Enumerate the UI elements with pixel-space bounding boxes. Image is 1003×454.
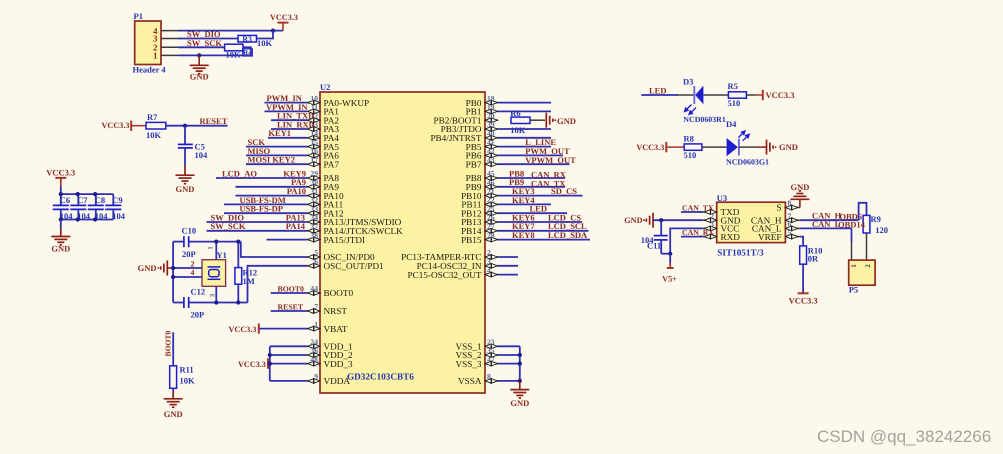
svg-text:SIT1051T/3: SIT1051T/3: [717, 248, 764, 258]
U2 pin 33 PA12: [307, 204, 344, 218]
U2 pin 9 VDDA: [307, 372, 350, 386]
wire USB-FS-DP: [224, 212, 307, 214]
svg-text:GND: GND: [190, 72, 209, 82]
wire BOOT0: [271, 292, 307, 294]
wire bottom rail of cap bank: [61, 219, 114, 221]
wire VBAT: [260, 328, 308, 330]
wire PB5 L_LINE: [498, 146, 551, 148]
svg-text:OBD14: OBD14: [838, 220, 866, 230]
svg-text:VCC3.3: VCC3.3: [766, 90, 795, 100]
junction crystal gnd: [171, 266, 175, 270]
svg-text:9: 9: [314, 372, 318, 381]
U2 pin 3 PC14-OSC32_IN: [417, 257, 498, 271]
svg-text:10K: 10K: [510, 125, 526, 135]
power VCC3.3 at R7: [102, 121, 146, 131]
U2 pin 14 PA4: [307, 129, 339, 143]
svg-text:4: 4: [487, 266, 491, 275]
svg-text:KEY1: KEY1: [268, 128, 291, 138]
svg-text:CAN_RX: CAN_RX: [682, 228, 714, 237]
svg-text:VDD_3: VDD_3: [324, 359, 353, 369]
svg-text:3: 3: [487, 257, 491, 266]
svg-text:GD32C103CBT6: GD32C103CBT6: [347, 371, 414, 381]
U2 pin 40 PB4/JNTRST: [430, 129, 498, 143]
svg-text:P5: P5: [849, 285, 858, 295]
svg-text:BOOT0: BOOT0: [164, 331, 173, 357]
svg-text:PA15/JTDI: PA15/JTDI: [324, 235, 366, 245]
U2 pin 43 PB7: [466, 155, 498, 169]
wire VPWM_IN: [265, 110, 308, 112]
wire MISO: [246, 154, 307, 156]
U2 pin 22 PB11: [461, 196, 498, 210]
svg-text:17: 17: [310, 155, 318, 164]
svg-text:GND: GND: [510, 398, 529, 408]
U2 pin 32 PA11: [307, 196, 344, 210]
wire OSC top rail: [173, 241, 183, 243]
wire KEY1: [268, 137, 307, 139]
wire BOOT0 to R11: [172, 332, 174, 366]
svg-text:PB15: PB15: [461, 235, 482, 245]
wire PB6 PWM_OUT: [498, 154, 563, 156]
resistor R6: [511, 117, 545, 123]
svg-text:VCC3.3: VCC3.3: [238, 360, 266, 369]
wire R3 to VCC3.3 node: [257, 31, 274, 39]
svg-text:104: 104: [112, 211, 126, 221]
U2 pin 19 PB1: [466, 103, 498, 117]
wire VCC pin to V5+ node: [670, 228, 702, 253]
capacitor C10: [184, 236, 189, 247]
junction V5+ node: [668, 252, 672, 256]
svg-text:R3: R3: [242, 35, 252, 44]
wire CAN_RX: [681, 236, 703, 238]
U2 pin 41 PB5: [466, 138, 498, 152]
svg-text:VCC3.3: VCC3.3: [789, 296, 818, 306]
U2 pin 4 PC15-OSC32_OUT: [407, 266, 498, 280]
svg-text:30: 30: [310, 178, 318, 187]
svg-text:C8: C8: [95, 195, 105, 205]
U2 pin 45 PB8: [466, 169, 498, 183]
svg-text:PC15-OSC32_OUT: PC15-OSC32_OUT: [407, 270, 481, 280]
ground GND below P1: [190, 55, 209, 81]
svg-text:2: 2: [487, 248, 491, 257]
junctions cap bank bottom rail: [59, 217, 97, 221]
U2 pin 7 NRST: [307, 302, 347, 316]
resistor R4: [225, 44, 253, 57]
ground GND at U3 pin2: [624, 213, 653, 228]
ground GND below cap bank: [51, 220, 70, 254]
power VCC3.3 at VBAT: [229, 323, 259, 333]
wire PB12 LED: [498, 212, 567, 214]
power VCC3.3 at R8: [636, 142, 684, 152]
U2 pin 46 PB9: [466, 178, 498, 192]
svg-text:SW_SCK: SW_SCK: [211, 221, 246, 231]
svg-text:VCC3.3: VCC3.3: [636, 143, 664, 152]
svg-text:OSC_OUT/PD1: OSC_OUT/PD1: [324, 261, 385, 271]
power VCC3.3 above capacitor bank: [46, 168, 75, 195]
svg-text:RESET: RESET: [200, 116, 228, 126]
ground GND below R11: [164, 399, 183, 419]
wire LED to D3: [641, 94, 678, 96]
svg-text:GND: GND: [164, 409, 183, 419]
MCU U2 body: [320, 92, 485, 393]
svg-text:26: 26: [487, 213, 495, 222]
svg-text:5: 5: [314, 248, 318, 257]
U2 pin 25 PB12: [461, 204, 498, 218]
ground GND below VSS rail: [510, 381, 529, 408]
wire VDD rail vertical: [269, 346, 271, 381]
svg-text:R5: R5: [728, 81, 738, 91]
U2 pin 24 VDD_1: [307, 338, 353, 352]
svg-text:NCD0603R1: NCD0603R1: [683, 115, 726, 124]
U2 pin 16 PA6: [307, 147, 339, 161]
wire VDD_2: [270, 354, 307, 356]
svg-text:22: 22: [487, 196, 495, 205]
svg-text:25: 25: [487, 204, 495, 213]
svg-text:28: 28: [487, 231, 495, 240]
svg-text:PB7: PB7: [466, 159, 482, 169]
junction crystal pin4: [171, 275, 175, 279]
svg-text:BOOT0: BOOT0: [278, 284, 305, 293]
U2 pin 12 PA2: [307, 111, 339, 125]
ground GND below C5: [176, 175, 195, 194]
wire SW_SCK to U2: [207, 230, 308, 232]
svg-text:6: 6: [314, 257, 318, 266]
wire R11 to GND: [172, 388, 174, 391]
wire PB14 KEY7: [498, 230, 589, 232]
U2 pin 28 PB15: [461, 231, 498, 245]
junction at P1 GND: [197, 53, 201, 57]
svg-text:VPWM_OUT: VPWM_OUT: [525, 155, 576, 165]
resistor R7: [146, 122, 166, 129]
svg-text:VSSA: VSSA: [458, 376, 482, 386]
IC U3 body: [717, 202, 786, 242]
power VCC3.3 top: [270, 13, 298, 31]
svg-text:48: 48: [310, 355, 318, 364]
U3 pin 7 CAN_H: [751, 211, 800, 225]
U2 pin 42 PB6: [466, 147, 498, 161]
U3 pin TXD: [703, 207, 740, 217]
resistor R10: [800, 246, 807, 264]
svg-text:21: 21: [487, 187, 495, 196]
connector P5 body: [849, 260, 875, 285]
svg-text:VREF: VREF: [758, 232, 782, 242]
U2 pin 30 PA9: [307, 178, 339, 192]
U2 pin 31 PA10: [307, 187, 344, 201]
svg-text:PA7: PA7: [324, 159, 340, 169]
U2 pin 10 PA0-WKUP: [307, 94, 369, 108]
wire MOSI KEY2: [246, 163, 307, 165]
wire CAN_TX: [681, 211, 703, 213]
svg-text:14: 14: [310, 129, 318, 138]
U2 pin 26 PB13: [461, 213, 498, 227]
wire LCD_AO KEY9: [216, 177, 307, 179]
U2 pin 35 VSS_2: [455, 346, 498, 360]
wire VREF to R10: [800, 237, 803, 246]
svg-text:3: 3: [209, 293, 217, 297]
wire LIN_TXD: [271, 119, 307, 121]
wire PA15 stub: [267, 239, 308, 241]
svg-text:510: 510: [728, 98, 741, 108]
svg-text:C11: C11: [647, 240, 661, 250]
svg-text:104: 104: [195, 150, 209, 160]
U2 pin 48 VDD_3: [307, 355, 353, 369]
wire LIN_RXD: [271, 128, 307, 130]
wire Y1 bottom pin: [215, 286, 217, 302]
diode D4 LED: [702, 131, 757, 156]
svg-text:1: 1: [314, 320, 318, 329]
svg-text:8: 8: [487, 372, 491, 381]
wire PB9 CAN_TX: [498, 186, 565, 188]
U2 pin 1 VBAT: [307, 320, 348, 334]
U2 pin 27 PB14: [461, 222, 498, 236]
power VCC3.3 below R10: [789, 293, 818, 305]
svg-text:GND: GND: [51, 244, 70, 254]
resistor R8: [684, 144, 702, 150]
svg-text:R8: R8: [684, 133, 694, 143]
svg-text:45: 45: [487, 169, 495, 178]
capacitor C7: [70, 194, 86, 219]
U2 pin 37 PA14/JTCK/SWCLK: [307, 222, 403, 236]
wire P1.4 to VCC3.3: [178, 30, 283, 32]
wire CAN_L to P5: [851, 228, 853, 241]
resistor R3: [238, 35, 257, 44]
svg-text:R7: R7: [147, 112, 158, 122]
wire R7 to RESET: [166, 125, 228, 127]
svg-text:SD_CS: SD_CS: [551, 186, 577, 196]
watermark CSDN: [817, 427, 991, 447]
svg-text:18: 18: [487, 94, 495, 103]
U3 pin RXD: [703, 232, 741, 242]
wire top rail of cap bank: [61, 193, 114, 195]
svg-text:R9: R9: [871, 214, 881, 224]
wire USB-FS-DM: [224, 203, 307, 205]
wire PB1: [498, 110, 551, 112]
svg-text:27: 27: [487, 222, 495, 231]
capacitor C11: [654, 220, 671, 254]
svg-text:44: 44: [310, 284, 318, 293]
svg-text:33: 33: [310, 204, 318, 213]
svg-text:10K: 10K: [146, 130, 162, 140]
svg-text:GND: GND: [176, 184, 195, 194]
wire PC13: [498, 256, 518, 258]
ground GND at R6: [546, 113, 576, 128]
svg-text:Header 4: Header 4: [133, 65, 167, 75]
junctions cap bank top rail: [59, 192, 97, 196]
svg-text:GND: GND: [557, 116, 576, 126]
U2 pin 44 BOOT0: [307, 284, 354, 298]
svg-text:1: 1: [153, 51, 158, 61]
U3 pin 5 VREF: [758, 228, 800, 242]
junction on VCC3.3 net: [271, 29, 275, 33]
wire SW_DIO to U2: [207, 221, 308, 223]
svg-text:PA10: PA10: [287, 186, 306, 196]
svg-text:R6: R6: [510, 108, 520, 118]
svg-text:C6: C6: [60, 195, 70, 205]
svg-text:NRST: NRST: [324, 306, 348, 316]
svg-text:USB-FS-DP: USB-FS-DP: [240, 204, 283, 214]
wire OSC_OUT to U2: [248, 266, 308, 303]
power VCC3.3 at VDD rail: [238, 358, 270, 368]
wire PB11 KEY4: [498, 203, 551, 205]
P5 left pin stub: [851, 242, 853, 260]
U2 pin 36 VDD_2: [307, 346, 353, 360]
U2 pin 8 VSSA: [458, 372, 498, 386]
resistor R12: [235, 242, 242, 303]
junction bottom rail Y1: [214, 300, 218, 304]
svg-text:VBAT: VBAT: [324, 324, 348, 334]
junction VSSA: [518, 379, 522, 383]
wire OSC bottom rail: [173, 302, 247, 304]
svg-text:10: 10: [310, 94, 318, 103]
svg-text:4: 4: [191, 268, 195, 277]
svg-text:GND: GND: [624, 216, 642, 225]
resistor R5: [728, 92, 746, 98]
diode D3 LED: [677, 86, 729, 115]
U2 pin 21 PB10: [461, 187, 498, 201]
svg-text:C7: C7: [77, 195, 88, 205]
wire U3 GND pin: [653, 219, 703, 221]
svg-text:CAN_TX: CAN_TX: [682, 203, 714, 212]
svg-text:PA14: PA14: [286, 221, 306, 231]
U2 pin 23 VSS_1: [455, 338, 498, 352]
svg-text:34: 34: [310, 213, 318, 222]
svg-text:R11: R11: [180, 365, 194, 375]
svg-text:20P: 20P: [182, 249, 196, 259]
wire PA9: [236, 186, 308, 188]
wire VSS_1: [498, 345, 520, 347]
junction VSS_3: [518, 362, 522, 366]
svg-text:U2: U2: [320, 82, 330, 92]
U2 pin 13 PA3: [307, 120, 339, 134]
svg-text:RXD: RXD: [721, 232, 741, 242]
wire Y1 top pin: [215, 242, 217, 260]
svg-text:19: 19: [487, 103, 495, 112]
U2 pin 11 PA1: [307, 103, 339, 117]
wire VSS_3: [498, 363, 520, 365]
junction R7/C5: [183, 124, 187, 128]
svg-text:15: 15: [310, 138, 318, 147]
wire VSSA: [498, 380, 520, 382]
svg-text:LCD_SDA: LCD_SDA: [548, 230, 588, 240]
wire VSS rail vertical: [519, 346, 521, 381]
U2 pin 15 PA5: [307, 138, 339, 152]
svg-text:32: 32: [310, 196, 318, 205]
svg-text:1: 1: [207, 246, 215, 250]
svg-text:38: 38: [310, 231, 318, 240]
U2 pin 47 VSS_3: [455, 355, 498, 369]
svg-text:P1: P1: [134, 11, 143, 21]
U3 pin 6 CAN_L: [752, 220, 800, 234]
U2 pin 6 OSC_OUT/PD1: [307, 257, 384, 271]
wire PB4: [498, 137, 551, 139]
svg-text:GND: GND: [779, 142, 798, 152]
capacitor C9: [105, 194, 121, 219]
U3 pin 8 S: [776, 199, 800, 213]
wire CAN_H: [800, 219, 859, 221]
svg-text:43: 43: [487, 155, 495, 164]
wire PA10: [236, 195, 308, 197]
U2 pin 20 PB2/BOOT1: [434, 111, 499, 125]
wire PWM_IN: [265, 102, 308, 104]
wire PB3: [498, 128, 551, 130]
U2 pin 5 OSC_IN/PD0: [307, 248, 375, 262]
svg-text:120: 120: [875, 225, 888, 235]
U2 pin 29 PA8: [307, 169, 339, 183]
ground GND at D4: [757, 140, 798, 155]
svg-text:D3: D3: [683, 77, 693, 87]
connector P1 header box: [135, 21, 161, 65]
wire VSS_2: [498, 354, 520, 356]
svg-text:5: 5: [788, 228, 792, 237]
svg-text:37: 37: [310, 222, 318, 231]
svg-text:0R: 0R: [808, 254, 819, 264]
wire PC15: [498, 274, 518, 276]
wire R10 to VCC3.3: [802, 264, 804, 293]
crystal Y1: [202, 260, 226, 287]
svg-text:40: 40: [487, 129, 495, 138]
ground GND at crystal: [138, 261, 173, 276]
U2 pin 17 PA7: [307, 155, 339, 169]
svg-text:41: 41: [487, 138, 495, 147]
svg-text:39: 39: [487, 120, 495, 129]
junction top rail Y1: [214, 240, 218, 244]
junction VDD_2: [268, 353, 272, 357]
resistor R11: [170, 366, 177, 389]
svg-text:VCC3.3: VCC3.3: [102, 121, 130, 130]
svg-text:VCC3.3: VCC3.3: [229, 325, 257, 334]
wire RESET to NRST: [271, 310, 307, 312]
U2 pin 34 PA13/JTMS/SWDIO: [307, 213, 402, 227]
wire Y1 pin4: [173, 276, 202, 278]
svg-text:7: 7: [314, 302, 318, 311]
svg-text:VCC3.3: VCC3.3: [46, 168, 75, 178]
U2 pin 18 PB0: [466, 94, 498, 108]
wire CAN_H to R9: [859, 203, 867, 220]
svg-text:VDDA: VDDA: [324, 376, 351, 386]
svg-text:10K: 10K: [180, 376, 196, 386]
wire PB10 KEY3: [498, 195, 583, 197]
svg-text:C9: C9: [112, 195, 122, 205]
svg-text:GND: GND: [138, 263, 157, 273]
junction bottom rail R12: [236, 300, 240, 304]
P1 pin numbers 4 3 2 1: [153, 26, 158, 61]
svg-text:20: 20: [487, 111, 495, 120]
wire PB0: [498, 102, 551, 104]
wire VDD_1: [270, 345, 307, 347]
junction VDD_3: [268, 362, 272, 366]
wire OSC_IN to U2: [241, 242, 307, 257]
svg-text:23: 23: [487, 338, 495, 347]
U3 pin GND: [703, 211, 741, 225]
wire left vertical rail of crystal: [172, 242, 174, 303]
wire P1.1 ground net: [178, 54, 251, 56]
junction C11 top: [659, 218, 663, 222]
svg-text:LED: LED: [649, 85, 666, 95]
capacitor C6: [53, 194, 69, 219]
svg-text:C10: C10: [182, 226, 197, 236]
U3 pin VCC: [703, 220, 740, 234]
svg-text:24: 24: [310, 338, 318, 347]
ground GND above U3 S pin: [790, 182, 809, 208]
svg-text:CAN_L: CAN_L: [812, 219, 841, 229]
svg-text:V5+: V5+: [662, 274, 677, 283]
svg-text:U3: U3: [717, 193, 727, 203]
capacitor C5: [178, 126, 193, 175]
wire PB7 VPWM_OUT: [498, 163, 570, 165]
svg-text:1M: 1M: [243, 276, 255, 286]
svg-text:VSS_3: VSS_3: [455, 359, 481, 369]
svg-text:S: S: [776, 203, 781, 213]
svg-text:10K: 10K: [226, 49, 242, 59]
